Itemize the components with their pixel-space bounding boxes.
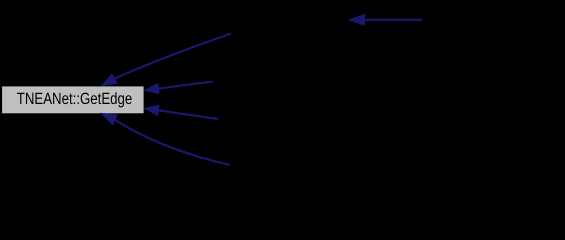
wire edge3 lower middle caller: [158, 110, 218, 119]
node TNEANet::GetEdge: [2, 86, 145, 114]
svg-text:TNEANet::GetEdge: TNEANet::GetEdge: [17, 90, 133, 108]
wire edge4 bottom curve caller: [115, 120, 230, 165]
wire edge1 top curve caller: [115, 34, 231, 79]
wire edge2 upper middle caller: [158, 82, 212, 89]
arrowhead edge3: [145, 105, 160, 115]
arrowhead edge5: [349, 14, 365, 25]
arrowhead edge2: [145, 84, 160, 94]
wire edge5 horizontal second-level caller: [365, 19, 422, 21]
arrowhead edge4: [102, 113, 118, 124]
arrowhead edge1: [102, 74, 118, 86]
